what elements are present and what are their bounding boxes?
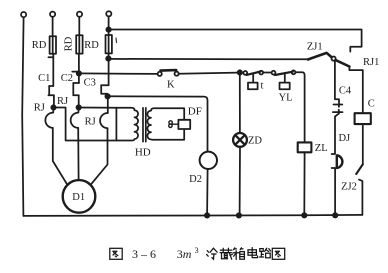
svg-text:HD: HD <box>135 147 151 159</box>
wire RJ1 to coil C <box>349 67 362 114</box>
wire DJ column upper <box>335 61 339 104</box>
caption figure number glyph 图 <box>110 248 122 259</box>
wire bottom rail <box>23 215 362 216</box>
wire t to YL <box>263 72 271 74</box>
node dot 3 <box>105 94 109 98</box>
thermostat actuator t <box>248 75 258 89</box>
transformer HD core <box>143 108 146 142</box>
transformer HD secondary <box>147 108 184 140</box>
node dot D2 rail <box>205 213 209 217</box>
wire D2 to rail <box>206 169 209 215</box>
svg-text:ZJ2: ZJ2 <box>341 182 357 193</box>
fuse RD (phase 1) <box>50 36 56 54</box>
thermal relay RJ contact 2 <box>73 95 78 107</box>
svg-text:DJ: DJ <box>338 133 350 144</box>
wire C4 to DJ <box>332 114 339 154</box>
terminal T1 <box>21 12 26 17</box>
svg-text:t: t <box>260 81 263 92</box>
pressure contact YL <box>272 70 296 75</box>
contact C1 <box>48 54 53 86</box>
node dot ZD rail <box>237 213 241 217</box>
wire ZL to rail <box>303 152 305 215</box>
svg-text:RJ: RJ <box>34 103 45 114</box>
contactor coil C <box>355 113 371 124</box>
lamp ZD <box>233 133 247 147</box>
svg-text:RJ: RJ <box>85 117 96 128</box>
wire stub speck near fuse3 <box>115 38 118 43</box>
node dot 1 <box>51 105 55 109</box>
node dot ZD tap <box>238 70 242 74</box>
svg-text:DF: DF <box>188 106 202 118</box>
fuse RD (phase 2) <box>76 35 82 53</box>
caption glyph 藏 <box>220 248 232 259</box>
contact C2 <box>72 54 79 83</box>
switch RJ1 blade <box>336 60 350 66</box>
svg-text:ZD: ZD <box>248 135 262 146</box>
fan motor D2 <box>200 152 217 169</box>
wire T1 down left side <box>22 17 23 216</box>
caption glyph 箱 <box>233 248 244 260</box>
wire branch from node 1 to transformer bottom <box>54 108 117 141</box>
relay coil ZL <box>298 142 312 152</box>
svg-text:C3: C3 <box>84 78 96 89</box>
terminal T3 <box>77 12 82 17</box>
svg-text:C1: C1 <box>38 73 50 84</box>
RJ heater loop 3 <box>100 113 108 128</box>
wire rail 2 <box>108 58 308 60</box>
defrost relay DF box <box>178 120 190 129</box>
svg-text:RJ: RJ <box>57 96 68 107</box>
svg-text:RD: RD <box>63 36 74 51</box>
svg-text:3m: 3m <box>177 247 192 261</box>
wire T4 down <box>108 17 110 36</box>
svg-text:C4: C4 <box>339 85 352 96</box>
svg-text:D2: D2 <box>189 174 202 185</box>
transformer HD primary <box>116 108 138 141</box>
contact C3 <box>101 53 108 96</box>
RJ heater loop 2 <box>71 107 79 128</box>
wire to motor D1 left <box>53 128 68 185</box>
wire to motor D1 top <box>77 128 79 180</box>
node dot rail 1 <box>106 27 110 31</box>
wire T3 to fuse <box>78 17 80 35</box>
thermostat contact t <box>243 71 263 75</box>
pressure actuator YL <box>280 75 290 90</box>
caption glyph 路 <box>260 248 271 258</box>
node dot rail 2 <box>106 56 110 60</box>
wire ZD to rail <box>239 147 241 216</box>
capacitor C4 <box>333 105 343 114</box>
compressor motor D1 <box>63 180 96 213</box>
svg-text:RD: RD <box>84 40 99 51</box>
svg-text:C2: C2 <box>61 73 73 84</box>
wire to motor D1 right <box>91 128 108 185</box>
node dot K tap <box>77 71 81 75</box>
lamp ZD column wire <box>239 73 241 134</box>
switch ZJ1 pivot <box>332 57 336 61</box>
caption ending glyph 图 <box>272 248 284 259</box>
wire <box>48 86 50 95</box>
caption glyph 电 <box>248 248 258 258</box>
svg-text:ZJ1: ZJ1 <box>307 42 323 53</box>
svg-text:ZL: ZL <box>315 143 328 154</box>
svg-text:3 – 6: 3 – 6 <box>132 247 156 261</box>
svg-text:3: 3 <box>195 246 199 255</box>
RJ heater loop 1 <box>45 108 53 128</box>
wire YL to ZL column <box>296 72 305 142</box>
wire DJ to rail <box>332 168 336 215</box>
terminal T2 <box>50 12 55 17</box>
switch ZJ1 blade <box>308 53 332 60</box>
svg-text:K: K <box>167 79 175 90</box>
terminal T4 <box>106 11 111 16</box>
relay DJ <box>337 155 343 168</box>
thermal relay RJ contact 1 <box>48 95 54 107</box>
contact ZJ2 fixed <box>359 180 362 215</box>
svg-text:C: C <box>368 99 375 110</box>
node dot DJ rail <box>333 213 337 217</box>
caption glyph 冷 <box>207 248 218 259</box>
wire branch from node 2 to transformer top <box>79 107 117 109</box>
wire T2 to fuse <box>52 17 54 36</box>
svg-text:RD: RD <box>32 40 47 51</box>
wire top rail 1 <box>109 30 362 52</box>
wire K to node <box>179 73 238 74</box>
switch K <box>158 70 179 76</box>
wire K line <box>79 72 158 75</box>
wire <box>72 83 74 95</box>
wire below node 3 <box>107 96 109 113</box>
svg-text:RJ1: RJ1 <box>363 57 379 68</box>
svg-text:YL: YL <box>279 93 293 104</box>
node dot ZL rail <box>302 213 306 217</box>
wire C to ZJ2 <box>362 124 364 164</box>
svg-text:D1: D1 <box>72 192 85 203</box>
defrost relay armature <box>169 121 179 128</box>
node dot 2 <box>77 105 81 109</box>
fuse RD (phase 3) <box>106 35 112 53</box>
contact ZJ2 blade <box>356 164 363 174</box>
wire feed to fan D2 <box>108 96 208 152</box>
